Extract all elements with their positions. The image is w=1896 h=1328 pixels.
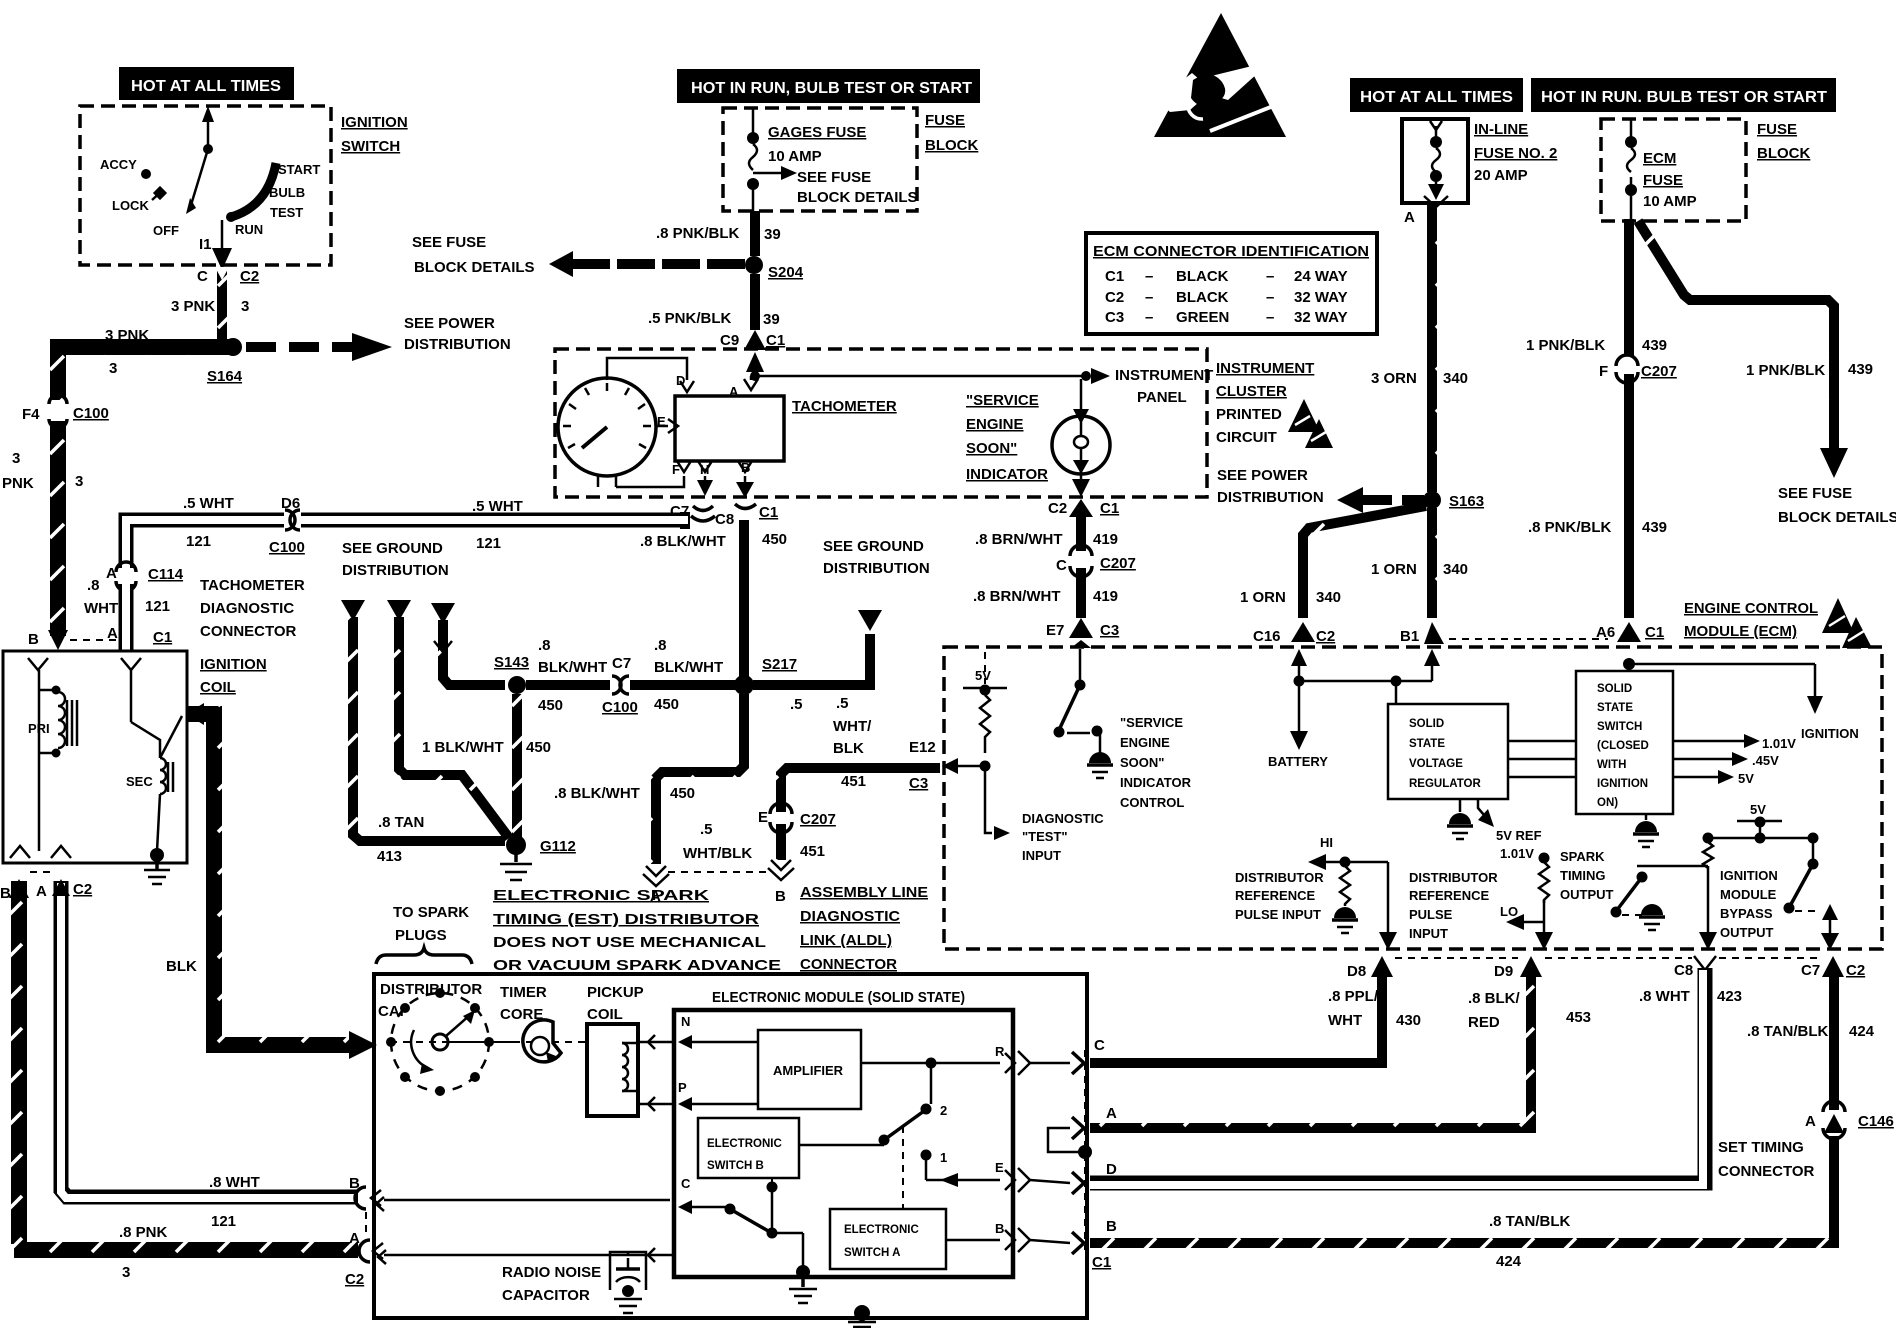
amplifier to R [861, 1062, 1000, 1065]
svg-text:ECM: ECM [1643, 150, 1676, 167]
svg-text:1 ORN: 1 ORN [1371, 561, 1417, 578]
svg-text:G112: G112 [540, 838, 576, 855]
svg-text:SEE POWER: SEE POWER [404, 315, 495, 332]
svg-text:340: 340 [1443, 370, 1468, 387]
svg-text:IGNITION: IGNITION [1801, 726, 1859, 741]
svg-text:.8 BLK/WHT: .8 BLK/WHT [554, 785, 640, 802]
in-line fuse box [1402, 119, 1468, 203]
svg-text:OUTPUT: OUTPUT [1560, 887, 1614, 902]
svg-text:RED: RED [1468, 1014, 1500, 1031]
fuse GAGES [752, 108, 755, 135]
header box HOT AT ALL TIMES [119, 67, 294, 100]
svg-text:BLOCK: BLOCK [925, 137, 978, 154]
svg-text:BLOCK: BLOCK [1757, 145, 1810, 162]
fuse block dashed box [723, 108, 917, 211]
svg-text:P: P [678, 1080, 687, 1095]
dashed shaft line [390, 1041, 515, 1043]
wire A .8 WHT bottom hollow [61, 881, 358, 1197]
wire from A pin across to capacitor/module [384, 1254, 674, 1257]
svg-text:PULSE INPUT: PULSE INPUT [1235, 907, 1321, 922]
svg-text:WHT/: WHT/ [833, 718, 872, 735]
tachometer box [675, 396, 784, 461]
svg-text:D9: D9 [1494, 963, 1513, 980]
wire B .8 PNK bottom [11, 881, 27, 1244]
svg-text:121: 121 [476, 535, 501, 552]
svg-text:39: 39 [763, 311, 780, 328]
svg-text:FUSE NO. 2: FUSE NO. 2 [1474, 145, 1557, 162]
svg-text:"SERVICE: "SERVICE [1120, 715, 1183, 730]
ground distribution triangle 3 [431, 603, 455, 624]
timer core symbol [523, 1020, 561, 1062]
svg-text:IN-LINE: IN-LINE [1474, 121, 1528, 138]
wire BLK coil to distributor [188, 714, 355, 1045]
svg-text:.8 WHT: .8 WHT [209, 1174, 260, 1191]
svg-text:MODULE: MODULE [1720, 887, 1777, 902]
svg-text:451: 451 [841, 773, 866, 790]
outer box ground [854, 1305, 870, 1321]
svg-text:419: 419 [1093, 588, 1118, 605]
indicator bulb [1052, 416, 1110, 474]
svg-text:C8: C8 [715, 511, 734, 528]
svg-text:INSTRUMENT: INSTRUMENT [1115, 367, 1213, 384]
svg-text:PLUGS: PLUGS [395, 927, 447, 944]
tachometer gauge [558, 378, 656, 476]
svg-text:PRINTED: PRINTED [1216, 406, 1282, 423]
svg-text:PICKUP: PICKUP [587, 984, 644, 1001]
svg-text:ELECTRONIC SPARK: ELECTRONIC SPARK [493, 887, 709, 904]
svg-text:SOLID: SOLID [1597, 683, 1632, 695]
solid state voltage regulator box [1388, 704, 1508, 799]
svg-text:–: – [1266, 268, 1274, 285]
svg-text:TIMING: TIMING [1560, 868, 1606, 883]
svg-text:R: R [995, 1044, 1005, 1059]
svg-text:SEE FUSE: SEE FUSE [1778, 485, 1852, 502]
svg-text:LINK (ALDL): LINK (ALDL) [800, 932, 892, 949]
svg-text:INPUT: INPUT [1022, 848, 1061, 863]
svg-text:C7: C7 [612, 655, 631, 672]
svg-text:STATE: STATE [1597, 702, 1633, 714]
ground distribution triangle 1 [341, 600, 365, 621]
svg-text:5V: 5V [1738, 771, 1754, 786]
ECM connector identification table [1086, 233, 1377, 334]
svg-text:.8 PNK/BLK: .8 PNK/BLK [656, 225, 740, 242]
svg-text:WITH: WITH [1597, 759, 1626, 771]
connector F4 C100 [49, 395, 67, 404]
svg-text:DISTRIBUTOR: DISTRIBUTOR [1235, 870, 1324, 885]
svg-text:419: 419 [1093, 531, 1118, 548]
svg-text:439: 439 [1848, 361, 1873, 378]
svg-text:BLK/WHT: BLK/WHT [654, 659, 723, 676]
svg-text:BLOCK DETAILS: BLOCK DETAILS [797, 189, 918, 206]
coil top pin V A [121, 658, 141, 670]
svg-text:C: C [1094, 1037, 1105, 1054]
svg-text:HI: HI [1320, 835, 1333, 850]
svg-text:A: A [1106, 1105, 1117, 1122]
svg-text:.8 TAN: .8 TAN [378, 814, 424, 831]
svg-text:LO: LO [1500, 904, 1518, 919]
wire across to instrument panel [755, 375, 1083, 378]
svg-text:PANEL: PANEL [1137, 389, 1187, 406]
svg-text:DIAGNOSTIC: DIAGNOSTIC [800, 908, 900, 925]
tach H arrow down [704, 476, 707, 484]
svg-text:ELECTRONIC: ELECTRONIC [844, 1224, 919, 1236]
header box HOT IN RUN BULB TEST OR START (right) [1531, 78, 1836, 112]
svg-text:.8 PPL/: .8 PPL/ [1328, 988, 1379, 1005]
svg-text:F4: F4 [22, 406, 40, 423]
splice S164 [224, 338, 242, 356]
svg-text:C2: C2 [345, 1271, 364, 1288]
connector A C146 [1829, 975, 1839, 1110]
svg-text:C1: C1 [1100, 500, 1119, 517]
wire into cluster [746, 352, 764, 372]
wire 1 PNK/BLK 439 to C207 [1624, 219, 1634, 356]
wire: left vertical 3 PNK down to coil [50, 340, 66, 400]
svg-text:START: START [278, 162, 320, 177]
svg-text:SOLID: SOLID [1409, 718, 1444, 730]
solid state switch box [1628, 664, 1631, 671]
svg-text:D: D [1106, 1161, 1117, 1178]
svg-text:DOES NOT USE MECHANICAL: DOES NOT USE MECHANICAL [493, 934, 766, 951]
svg-text:ELECTRONIC: ELECTRONIC [707, 1138, 782, 1150]
svg-text:ON): ON) [1597, 797, 1618, 809]
svg-text:.8 PNK: .8 PNK [119, 1224, 168, 1241]
dashed pin line between B and A rows [365, 1212, 367, 1238]
svg-text:3: 3 [12, 450, 20, 467]
svg-text:C: C [197, 268, 208, 285]
svg-text:C1: C1 [153, 629, 172, 646]
svg-text:CIRCUIT: CIRCUIT [1216, 429, 1277, 446]
svg-text:INDICATOR: INDICATOR [1120, 775, 1192, 790]
svg-text:–: – [1145, 268, 1153, 285]
svg-text:SEE GROUND: SEE GROUND [342, 540, 443, 557]
svg-text:121: 121 [186, 533, 211, 550]
svg-text:DISTRIBUTION: DISTRIBUTION [823, 560, 930, 577]
svg-text:S164: S164 [207, 368, 243, 385]
arrow left from S204 dashes [549, 251, 573, 277]
wire S217 right to triangle 4 [753, 634, 870, 685]
svg-text:C207: C207 [1641, 363, 1677, 380]
svg-text:RADIO NOISE: RADIO NOISE [502, 1264, 601, 1281]
svg-text:GREEN: GREEN [1176, 309, 1229, 326]
dashed wire to power distribution [246, 342, 352, 352]
svg-text:C2: C2 [1048, 500, 1067, 517]
svg-text:PRI: PRI [28, 721, 50, 736]
svg-text:CONNECTOR: CONNECTOR [200, 623, 297, 640]
electronic switch B box [698, 1118, 799, 1178]
svg-text:IGNITION: IGNITION [200, 656, 267, 673]
svg-text:1 PNK/BLK: 1 PNK/BLK [1746, 362, 1825, 379]
svg-text:10 AMP: 10 AMP [1643, 193, 1697, 210]
amplifier box [758, 1030, 861, 1109]
wire 3 PNK horizontal to S164 [50, 339, 230, 355]
svg-text:C2: C2 [1846, 962, 1865, 979]
svg-text:439: 439 [1642, 519, 1667, 536]
svg-text:.5 WHT: .5 WHT [472, 498, 523, 515]
B1 feed internal [1424, 649, 1440, 666]
svg-text:BATTERY: BATTERY [1268, 754, 1328, 769]
ignition coil box [3, 651, 187, 863]
svg-text:C146: C146 [1858, 1113, 1894, 1130]
svg-text:C3: C3 [1100, 622, 1119, 639]
pickup coil box [587, 1024, 638, 1116]
SES indicator control switch [1079, 649, 1082, 682]
switch A to B pin [946, 1239, 1000, 1242]
svg-text:S217: S217 [762, 656, 797, 673]
svg-text:–: – [1266, 309, 1274, 326]
row B wire to C146 [1090, 1136, 1834, 1243]
svg-text:BLK: BLK [166, 958, 197, 975]
svg-text:S143: S143 [494, 654, 529, 671]
svg-text:GAGES FUSE: GAGES FUSE [768, 124, 866, 141]
svg-text:24 WAY: 24 WAY [1294, 268, 1348, 285]
svg-text:5V REF: 5V REF [1496, 828, 1542, 843]
svg-text:HOT AT ALL TIMES: HOT AT ALL TIMES [131, 78, 281, 95]
svg-text:OUTPUT: OUTPUT [1720, 925, 1774, 940]
svg-text:3 ORN: 3 ORN [1371, 370, 1417, 387]
svg-text:B: B [349, 1175, 360, 1192]
svg-text:IGNITION: IGNITION [341, 114, 408, 131]
svg-text:STATE: STATE [1409, 738, 1445, 750]
svg-text:B: B [995, 1221, 1004, 1236]
svg-text:SWITCH: SWITCH [341, 138, 400, 155]
svg-text:C: C [1056, 557, 1067, 574]
svg-text:.8 TAN/BLK: .8 TAN/BLK [1489, 1213, 1571, 1230]
svg-text:ACCY: ACCY [100, 157, 137, 172]
svg-text:439: 439 [1642, 337, 1667, 354]
svg-text:.8 BLK/WHT: .8 BLK/WHT [640, 533, 726, 550]
header box HOT AT ALL TIMES (right) [1350, 78, 1523, 112]
svg-text:340: 340 [1443, 561, 1468, 578]
svg-text:WHT: WHT [84, 600, 118, 617]
svg-text:HOT IN RUN, BULB TEST OR START: HOT IN RUN, BULB TEST OR START [691, 80, 972, 97]
svg-text:5V: 5V [1750, 802, 1766, 817]
svg-text:450: 450 [762, 531, 787, 548]
svg-text:–: – [1145, 309, 1153, 326]
svg-text:423: 423 [1717, 988, 1742, 1005]
svg-text:CLUSTER: CLUSTER [1216, 383, 1287, 400]
arrow see fuse block details [753, 172, 786, 175]
wire 1 ORN 340 S163 to B1 [1427, 508, 1437, 618]
svg-text:32 WAY: 32 WAY [1294, 309, 1348, 326]
svg-text:BLK: BLK [833, 740, 864, 757]
splice S143 [508, 676, 526, 694]
svg-text:ASSEMBLY LINE: ASSEMBLY LINE [800, 884, 928, 901]
switch box ground [1645, 814, 1648, 820]
svg-text:TO SPARK: TO SPARK [393, 904, 469, 921]
regulator to switch lines [1508, 740, 1576, 743]
wire 1 PNK/BLK diagonal branch to right [1638, 221, 1834, 452]
splice S204 [745, 256, 763, 274]
svg-text:SOON": SOON" [1120, 755, 1164, 770]
svg-text:HOT AT ALL TIMES: HOT AT ALL TIMES [1360, 89, 1513, 106]
svg-text:.5: .5 [700, 821, 713, 838]
svg-text:3: 3 [109, 360, 117, 377]
wire down from switch [221, 220, 224, 252]
svg-text:340: 340 [1316, 589, 1341, 606]
brace [376, 948, 472, 964]
svg-text:SOON": SOON" [966, 440, 1017, 457]
connector C7 C100 (mid) [613, 677, 628, 693]
connector E C207 [772, 811, 790, 827]
svg-text:SEC: SEC [126, 774, 153, 789]
svg-text:C8: C8 [1674, 962, 1693, 979]
splice S163 [1423, 491, 1441, 509]
svg-text:FUSE: FUSE [1757, 121, 1797, 138]
svg-text:C207: C207 [800, 811, 836, 828]
svg-text:DIAGNOSTIC: DIAGNOSTIC [200, 600, 294, 617]
dashed pin links bottom [1395, 957, 1518, 959]
svg-text:.45V: .45V [1752, 753, 1779, 768]
svg-text:HOT IN RUN. BULB TEST OR START: HOT IN RUN. BULB TEST OR START [1541, 89, 1827, 106]
svg-text:SWITCH B: SWITCH B [707, 1160, 764, 1172]
svg-text:C1: C1 [766, 332, 785, 349]
svg-text:–: – [1145, 289, 1153, 306]
svg-text:TACHOMETER: TACHOMETER [200, 577, 305, 594]
svg-text:PNK: PNK [2, 475, 34, 492]
svg-text:C2: C2 [73, 881, 92, 898]
svg-text:TIMING (EST) DISTRIBUTOR: TIMING (EST) DISTRIBUTOR [493, 911, 759, 928]
svg-text:SEE GROUND: SEE GROUND [823, 538, 924, 555]
svg-text:ENGINE CONTROL: ENGINE CONTROL [1684, 600, 1818, 617]
wire bulb down to C2 C1 [1080, 474, 1083, 482]
svg-text:"SERVICE: "SERVICE [966, 392, 1039, 409]
svg-text:SPARK: SPARK [1560, 849, 1605, 864]
svg-text:DIAGNOSTIC: DIAGNOSTIC [1022, 811, 1104, 826]
svg-text:.8 WHT: .8 WHT [1639, 988, 1690, 1005]
svg-text:S204: S204 [768, 264, 804, 281]
svg-text:1.01V: 1.01V [1500, 846, 1534, 861]
svg-text:32 WAY: 32 WAY [1294, 289, 1348, 306]
regulator ground [1459, 799, 1462, 812]
svg-text:D8: D8 [1347, 963, 1366, 980]
svg-text:B: B [1106, 1218, 1117, 1235]
dashed link A to B [668, 871, 768, 873]
svg-text:C1: C1 [1092, 1254, 1111, 1271]
svg-text:A: A [729, 384, 739, 399]
svg-text:.5 WHT: .5 WHT [183, 495, 234, 512]
electronic switch A box [830, 1209, 946, 1269]
row D wire to C8 (hollow) [1090, 968, 1705, 1183]
svg-text:BLACK: BLACK [1176, 289, 1229, 306]
splice S217 [734, 675, 754, 695]
svg-text:CONTROL: CONTROL [1120, 795, 1184, 810]
svg-text:E7: E7 [1046, 622, 1064, 639]
instrument cluster dashed box [555, 349, 1207, 497]
wire 3 PNK vertical [217, 268, 227, 352]
svg-text:CAPACITOR: CAPACITOR [502, 1287, 590, 1304]
ground G112 [506, 835, 526, 855]
svg-text:39: 39 [764, 226, 781, 243]
connector D6 C100 [284, 509, 301, 531]
svg-text:INSTRUMENT: INSTRUMENT [1216, 360, 1314, 377]
svg-text:OFF: OFF [153, 223, 179, 238]
svg-text:.8 BLK/: .8 BLK/ [1468, 990, 1521, 1007]
module right edge double chevrons [1005, 1053, 1015, 1073]
wire .8 BLK/WHT 450 down to S217 [739, 520, 749, 680]
svg-text:121: 121 [145, 598, 170, 615]
C1 connector column [1084, 1050, 1086, 1250]
wire .8 PNK/BLK 439 to A6 [1624, 374, 1634, 618]
distributor cap circle [391, 993, 489, 1091]
svg-text:DISTRIBUTOR: DISTRIBUTOR [380, 981, 482, 998]
wire S143 to C7 C100 [526, 680, 610, 690]
fuse no 2 symbol [1430, 121, 1442, 130]
svg-text:BULB: BULB [269, 185, 305, 200]
svg-text:20 AMP: 20 AMP [1474, 167, 1528, 184]
svg-text:3: 3 [241, 298, 249, 315]
svg-text:10 AMP: 10 AMP [768, 148, 822, 165]
module ground [796, 1265, 810, 1279]
wire .5 PNK/BLK 39 [750, 274, 760, 330]
svg-text:C100: C100 [73, 405, 109, 422]
svg-text:C2: C2 [1316, 628, 1335, 645]
svg-text:E: E [995, 1160, 1004, 1175]
svg-text:ELECTRONIC MODULE (SOLID STATE: ELECTRONIC MODULE (SOLID STATE) [712, 989, 965, 1006]
coil ground [157, 794, 160, 851]
svg-text:C3: C3 [909, 775, 928, 792]
switch arc RUN to START [231, 163, 276, 217]
ignition module bypass switch [1812, 838, 1815, 862]
distributor outer box [374, 974, 1087, 1318]
svg-text:1 PNK/BLK: 1 PNK/BLK [1526, 337, 1605, 354]
dashed link to C1 [70, 639, 120, 641]
5V REF arrow [1478, 799, 1484, 815]
battery feed C16 internal [1291, 649, 1307, 666]
svg-text:121: 121 [211, 1213, 236, 1230]
ECM fuse symbol [1630, 119, 1633, 138]
svg-text:DISTRIBUTION: DISTRIBUTION [1217, 489, 1324, 506]
svg-text:3: 3 [75, 473, 83, 490]
coil top pin V B [28, 658, 48, 670]
svg-text:A: A [36, 883, 47, 900]
coil bottom pins [10, 846, 30, 858]
svg-text:450: 450 [654, 696, 679, 713]
svg-text:FUSE: FUSE [1643, 172, 1683, 189]
ESD triangle symbol large [1154, 13, 1291, 137]
svg-text:C1: C1 [1645, 624, 1664, 641]
svg-text:"TEST": "TEST" [1022, 829, 1068, 844]
svg-text:RUN: RUN [235, 222, 263, 237]
svg-text:.8 TAN/BLK: .8 TAN/BLK [1747, 1023, 1829, 1040]
header box HOT IN RUN BULB TEST OR START [677, 69, 980, 103]
svg-text:C7: C7 [1801, 962, 1820, 979]
svg-text:451: 451 [800, 843, 825, 860]
svg-text:A: A [1805, 1113, 1816, 1130]
svg-text:C207: C207 [1100, 555, 1136, 572]
connector F C207 (right) [1620, 360, 1638, 377]
svg-text:TEST: TEST [270, 205, 303, 220]
svg-text:TACHOMETER: TACHOMETER [792, 398, 897, 415]
svg-text:430: 430 [1396, 1012, 1421, 1029]
svg-text:.8 PNK/BLK: .8 PNK/BLK [1528, 519, 1612, 536]
electronic module box [674, 1010, 1013, 1277]
svg-text:C114: C114 [148, 566, 184, 583]
svg-text:PULSE: PULSE [1409, 907, 1453, 922]
svg-text:.8: .8 [654, 637, 667, 654]
svg-text:COIL: COIL [587, 1006, 623, 1023]
svg-text:INPUT: INPUT [1409, 926, 1448, 941]
pickup coil to module wires [638, 1041, 676, 1044]
svg-text:CONNECTOR: CONNECTOR [1718, 1163, 1815, 1180]
svg-text:1.01V: 1.01V [1762, 736, 1796, 751]
ECM dashed box [944, 647, 1882, 949]
svg-text:C1: C1 [759, 504, 778, 521]
svg-text:ECM CONNECTOR IDENTIFICATION: ECM CONNECTOR IDENTIFICATION [1093, 243, 1369, 260]
wire C207 to B pin [776, 824, 786, 860]
connector C114 [116, 568, 136, 582]
svg-text:3 PNK: 3 PNK [171, 298, 215, 315]
row A wire to D9 [1090, 975, 1531, 1128]
